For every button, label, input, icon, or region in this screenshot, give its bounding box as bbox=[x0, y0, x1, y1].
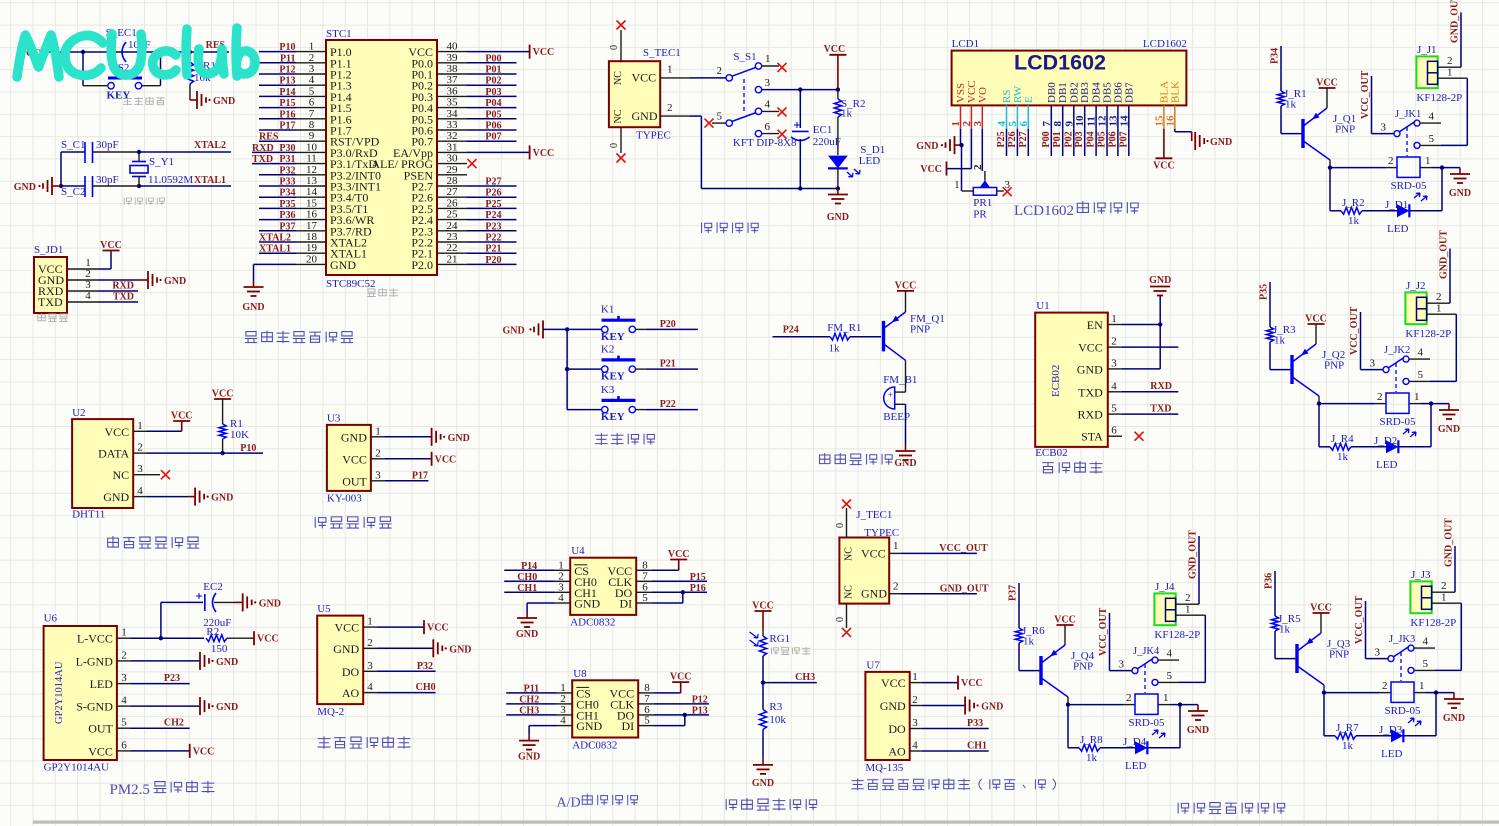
LED J_D4 bbox=[1123, 730, 1180, 772]
wire LED loop left rail bbox=[1319, 404, 1330, 447]
pin 6 DO of U8 bbox=[617, 704, 709, 723]
svg-text:NC: NC bbox=[844, 585, 855, 599]
sensor U2 DHT11 bbox=[72, 407, 133, 521]
svg-text:VCC: VCC bbox=[212, 389, 234, 400]
net label P33 (U7) bbox=[922, 718, 989, 729]
power port VCC (J_Q4) bbox=[1054, 615, 1076, 646]
pin 1 of J_J2 bbox=[1427, 303, 1457, 315]
svg-text:GND: GND bbox=[1210, 137, 1232, 148]
svg-text:VCC: VCC bbox=[1153, 161, 1175, 172]
svg-text:J_J4: J_J4 bbox=[1155, 581, 1175, 593]
ground (U5) bbox=[377, 639, 472, 657]
pin 20 GND of STC1 bbox=[254, 253, 357, 281]
pin 3 NC of U2 bbox=[113, 463, 147, 482]
svg-text:GND: GND bbox=[1438, 424, 1460, 435]
pin 4 GND of U4 bbox=[527, 592, 600, 612]
svg-text:3: 3 bbox=[367, 660, 373, 672]
svg-text:S_TEC1: S_TEC1 bbox=[643, 47, 681, 59]
pin 5 P1.4 of STC1 bbox=[259, 85, 352, 104]
svg-text:R2: R2 bbox=[206, 626, 219, 638]
resistor R2 150 bbox=[206, 626, 254, 655]
svg-text:P37: P37 bbox=[279, 221, 295, 232]
pin 5 OUT of U6 bbox=[88, 717, 131, 736]
power port VCC (R2) bbox=[254, 631, 279, 645]
svg-text:KEY: KEY bbox=[601, 411, 625, 423]
svg-text:VCC_OUT: VCC_OUT bbox=[1360, 70, 1371, 119]
svg-text:AO: AO bbox=[342, 686, 360, 700]
svg-text:FM_R1: FM_R1 bbox=[827, 322, 861, 334]
svg-text:13: 13 bbox=[306, 175, 318, 187]
svg-text:U1: U1 bbox=[1036, 300, 1049, 312]
svg-text:0: 0 bbox=[835, 523, 846, 528]
svg-text:CH3: CH3 bbox=[795, 672, 815, 683]
svg-text:GND: GND bbox=[213, 96, 235, 107]
svg-text:GND: GND bbox=[14, 182, 36, 193]
pin 5 RXD of U1 bbox=[1077, 403, 1178, 422]
svg-text:1k: 1k bbox=[1337, 451, 1349, 463]
svg-text:DB3: DB3 bbox=[1079, 82, 1091, 103]
wire P35 down bbox=[1269, 282, 1271, 327]
pin 8 VCC of U4 bbox=[608, 559, 679, 578]
svg-text:TYPEC: TYPEC bbox=[636, 130, 671, 142]
svg-text:3: 3 bbox=[1370, 358, 1376, 370]
svg-text:J_J1: J_J1 bbox=[1417, 44, 1437, 56]
net label P24 bbox=[783, 324, 799, 335]
svg-text:5: 5 bbox=[1167, 670, 1173, 682]
svg-text:25: 25 bbox=[447, 209, 459, 221]
net GND_OUT wire (J_J3) bbox=[1444, 518, 1456, 592]
svg-text:P16: P16 bbox=[279, 109, 295, 120]
svg-text:P27: P27 bbox=[1018, 131, 1029, 147]
svg-text:P26: P26 bbox=[1007, 131, 1018, 147]
svg-text:5: 5 bbox=[1423, 658, 1429, 670]
svg-text:11: 11 bbox=[306, 153, 317, 165]
ground (S_JD1) bbox=[148, 271, 186, 289]
svg-text:P20: P20 bbox=[660, 319, 676, 330]
svg-text:J_J3: J_J3 bbox=[1411, 569, 1431, 581]
connector J_J3 KF128-2P bbox=[1410, 569, 1456, 629]
wire base of J_Q1 bbox=[1281, 133, 1302, 135]
connector J_J4 KF128-2P bbox=[1154, 581, 1200, 641]
net label P20 bbox=[660, 319, 676, 330]
svg-text:5: 5 bbox=[1429, 133, 1435, 145]
svg-text:1: 1 bbox=[893, 540, 899, 552]
net VCC_OUT rail (J_JK3) bbox=[1354, 595, 1366, 658]
svg-text:P05: P05 bbox=[1097, 131, 1108, 147]
title AD conversion circuit bbox=[557, 794, 638, 811]
svg-text:P01: P01 bbox=[485, 65, 501, 76]
svg-text:2: 2 bbox=[717, 65, 723, 77]
svg-text:3: 3 bbox=[309, 63, 315, 75]
svg-text:KF128-2P: KF128-2P bbox=[1410, 617, 1456, 629]
node junction U1 pin1 bbox=[1158, 322, 1162, 369]
microcontroller U STC1 STC89C52 bbox=[326, 28, 437, 290]
svg-text:EC1: EC1 bbox=[813, 124, 833, 136]
svg-text:3: 3 bbox=[765, 77, 771, 89]
svg-text:GND: GND bbox=[1443, 713, 1465, 724]
svg-text:P00: P00 bbox=[1041, 131, 1052, 147]
svg-text:RXD: RXD bbox=[1077, 408, 1103, 422]
svg-text:GND: GND bbox=[1449, 188, 1471, 199]
svg-text:P24: P24 bbox=[485, 210, 501, 221]
push button K1 KEY bbox=[567, 304, 698, 343]
svg-text:LED: LED bbox=[859, 155, 880, 167]
svg-text:39: 39 bbox=[447, 52, 459, 64]
svg-text:1: 1 bbox=[1441, 592, 1447, 604]
ADC U8 ADC0832 bbox=[572, 668, 638, 752]
svg-text:P32: P32 bbox=[417, 661, 433, 672]
svg-text:VCC: VCC bbox=[193, 746, 215, 757]
gray text danpianji bbox=[367, 288, 398, 297]
LCD pin names BLA BLK bbox=[1158, 81, 1181, 103]
transistor J_Q2 PNP bbox=[1292, 344, 1345, 396]
net label P34 bbox=[1270, 48, 1281, 64]
svg-text:RES: RES bbox=[259, 132, 279, 143]
svg-text:VCC: VCC bbox=[632, 71, 657, 85]
svg-text:14: 14 bbox=[1118, 115, 1130, 127]
svg-text:S_C1: S_C1 bbox=[61, 139, 85, 151]
power port VCC (U8) bbox=[670, 672, 692, 693]
svg-text:J_D1: J_D1 bbox=[1385, 199, 1408, 211]
connector J_J2 KF128-2P bbox=[1405, 280, 1451, 340]
svg-text:NC: NC bbox=[113, 468, 130, 482]
net VCC_OUT rail (J_JK1) bbox=[1360, 70, 1372, 133]
svg-text:P23: P23 bbox=[164, 673, 180, 684]
svg-text:2: 2 bbox=[367, 637, 373, 649]
svg-text:P07: P07 bbox=[485, 132, 501, 143]
svg-text:20: 20 bbox=[306, 253, 318, 265]
svg-text:1: 1 bbox=[1436, 303, 1442, 315]
pin 6 DO of U4 bbox=[615, 581, 707, 600]
svg-text:4: 4 bbox=[85, 290, 91, 302]
svg-text:0: 0 bbox=[609, 45, 620, 50]
relay contacts J_JK1 bbox=[1372, 109, 1442, 156]
svg-text:GND: GND bbox=[518, 752, 540, 763]
pin 9 RST/VPD of STC1 bbox=[259, 130, 380, 149]
pin 0 top of S_TEC1 bbox=[609, 21, 626, 62]
no-connect X (S_S1 pin5) bbox=[705, 119, 714, 128]
net VCC_OUT rail (J_JK4) bbox=[1098, 607, 1110, 670]
gray text guangmindianzu bbox=[771, 647, 810, 655]
svg-text:GND: GND bbox=[752, 778, 774, 789]
svg-text:P14: P14 bbox=[521, 561, 537, 572]
svg-text:10k: 10k bbox=[769, 714, 786, 726]
svg-text:9: 9 bbox=[309, 130, 315, 142]
wire LED loop left rail bbox=[1324, 693, 1335, 736]
svg-text:RXD: RXD bbox=[1150, 381, 1172, 392]
svg-text:1: 1 bbox=[1111, 313, 1117, 325]
node junction reset-right bbox=[188, 50, 192, 54]
svg-text:2: 2 bbox=[1126, 692, 1132, 704]
ground (U7) bbox=[922, 697, 1003, 715]
svg-text:NC: NC bbox=[613, 71, 624, 85]
svg-text:0: 0 bbox=[835, 617, 846, 622]
pin 1 VCC of U2 bbox=[105, 420, 147, 439]
svg-text:E: E bbox=[1023, 96, 1035, 103]
svg-text:10: 10 bbox=[306, 141, 318, 153]
wire base of J_Q2 bbox=[1270, 369, 1291, 371]
svg-text:P23: P23 bbox=[485, 221, 501, 232]
svg-text:P37: P37 bbox=[1008, 585, 1019, 601]
svg-text:22: 22 bbox=[447, 242, 458, 254]
svg-text:TYPEC: TYPEC bbox=[864, 527, 899, 539]
svg-text:VCC: VCC bbox=[533, 47, 555, 58]
svg-text:TXD: TXD bbox=[38, 295, 63, 309]
wire LCD VCC bbox=[970, 129, 972, 169]
svg-text:OUT: OUT bbox=[88, 722, 113, 736]
wire LCD VSS to gnd bbox=[959, 129, 963, 191]
svg-text:1: 1 bbox=[1163, 692, 1169, 704]
pin 3 P1.2 of STC1 bbox=[259, 63, 352, 82]
pin 27 P2.6 of STC1 bbox=[411, 186, 516, 205]
resistor J_R2 1k bbox=[1341, 197, 1397, 227]
svg-text:5: 5 bbox=[309, 85, 315, 97]
LCD pins 4-6 bbox=[996, 105, 1030, 128]
pin 28 P2.7 of STC1 bbox=[411, 175, 516, 194]
pin 2 of J_J4 bbox=[1176, 592, 1199, 604]
svg-text:RXD: RXD bbox=[252, 143, 274, 154]
ground (U3) bbox=[385, 428, 470, 446]
ground (U6 L-GND) bbox=[131, 652, 238, 670]
svg-text:P12: P12 bbox=[692, 694, 708, 705]
svg-text:2: 2 bbox=[893, 581, 899, 593]
svg-text:GND: GND bbox=[1149, 275, 1171, 286]
svg-text:PNP: PNP bbox=[1073, 661, 1093, 673]
svg-text:GND: GND bbox=[333, 642, 359, 656]
svg-text:SRD-05: SRD-05 bbox=[1384, 705, 1421, 717]
ground (buttons) bbox=[502, 320, 543, 338]
pin 2 GND of S_TEC1 bbox=[660, 102, 838, 189]
svg-text:2: 2 bbox=[309, 52, 315, 64]
svg-text:VCC: VCC bbox=[88, 744, 113, 758]
svg-text:P25: P25 bbox=[996, 131, 1007, 147]
net label CH1 (U7) bbox=[922, 741, 989, 752]
svg-text:PR1: PR1 bbox=[973, 197, 992, 209]
svg-text:4: 4 bbox=[1418, 347, 1424, 359]
pin 30 ALE/ PROG of STC1 bbox=[371, 153, 467, 172]
svg-text:K3: K3 bbox=[601, 384, 615, 396]
svg-text:CH1: CH1 bbox=[967, 741, 987, 752]
net label P35 bbox=[1259, 284, 1270, 300]
air quality sensor U7 MQ-135 bbox=[865, 660, 909, 775]
svg-text:3: 3 bbox=[1375, 647, 1381, 659]
svg-text:DATA: DATA bbox=[98, 447, 129, 461]
svg-text:KFT DIP-8X8: KFT DIP-8X8 bbox=[733, 137, 797, 149]
LED J_D3 bbox=[1379, 718, 1436, 760]
push button S2 KEY bbox=[83, 52, 161, 102]
svg-text:6: 6 bbox=[765, 121, 771, 133]
crystal S_Y1 11.0592M bbox=[130, 150, 193, 188]
svg-text:ADC0832: ADC0832 bbox=[572, 739, 617, 751]
wire LED loop right rail bbox=[1430, 404, 1432, 447]
svg-text:S_S1: S_S1 bbox=[733, 51, 756, 63]
pin 2 GND_OUT of J_TEC1 bbox=[889, 581, 989, 595]
resistor J_R3 1k bbox=[1266, 324, 1296, 370]
svg-text:VCC_OUT: VCC_OUT bbox=[1098, 607, 1109, 656]
svg-text:3: 3 bbox=[912, 717, 918, 729]
pin 18 XTAL2 of STC1 bbox=[259, 231, 367, 250]
svg-text:A/D: A/D bbox=[557, 796, 581, 811]
svg-text:L-GND: L-GND bbox=[76, 654, 114, 668]
wire coil row J_JK1 bbox=[1330, 155, 1444, 170]
svg-text:VCC: VCC bbox=[533, 148, 555, 159]
pin 2 of J_J3 bbox=[1432, 580, 1455, 592]
svg-text:2: 2 bbox=[1441, 580, 1447, 592]
svg-text:10K: 10K bbox=[230, 429, 249, 441]
svg-text:VCC: VCC bbox=[752, 601, 774, 612]
pin 4 S-GND of U6 bbox=[76, 695, 131, 714]
pin 37 P0.2 of STC1 bbox=[411, 74, 516, 93]
svg-text:4: 4 bbox=[560, 715, 566, 727]
svg-text:P21: P21 bbox=[485, 244, 501, 255]
wire collector of J_Q2 bbox=[1317, 396, 1321, 406]
svg-text:GND: GND bbox=[341, 430, 367, 444]
svg-text:PR: PR bbox=[973, 209, 987, 221]
svg-text:P06: P06 bbox=[1107, 131, 1118, 147]
svg-text:LED: LED bbox=[1125, 760, 1146, 772]
svg-text:2: 2 bbox=[667, 102, 673, 114]
svg-text:P11: P11 bbox=[280, 53, 296, 64]
LCD pins 7-14 bbox=[1041, 105, 1131, 128]
svg-text:2: 2 bbox=[1111, 336, 1117, 348]
svg-text:TXD: TXD bbox=[252, 154, 273, 165]
svg-text:P36: P36 bbox=[279, 210, 295, 221]
svg-text:GND: GND bbox=[981, 702, 1003, 713]
photoresistor RG1 bbox=[750, 630, 791, 683]
svg-text:1: 1 bbox=[367, 616, 373, 628]
svg-text:RXD: RXD bbox=[112, 281, 134, 292]
svg-text:16: 16 bbox=[306, 209, 318, 221]
wire L-VCC node bbox=[131, 602, 204, 640]
svg-text:GP2Y1014AU: GP2Y1014AU bbox=[54, 661, 65, 724]
pin 2 DATA of U2 bbox=[98, 442, 147, 461]
svg-text:7: 7 bbox=[1041, 121, 1053, 127]
svg-text:4: 4 bbox=[367, 681, 373, 693]
svg-text:CH0: CH0 bbox=[416, 682, 436, 693]
svg-text:P10: P10 bbox=[279, 42, 295, 53]
svg-text:34: 34 bbox=[447, 108, 459, 120]
svg-text:30: 30 bbox=[447, 153, 459, 165]
pin 1 VCC of U5 bbox=[335, 616, 377, 635]
svg-text:1: 1 bbox=[121, 627, 127, 639]
ground (LCD BLK) bbox=[1192, 132, 1233, 152]
svg-text:33: 33 bbox=[447, 119, 459, 131]
svg-text:LED: LED bbox=[1376, 459, 1397, 471]
svg-text:VCC: VCC bbox=[1305, 314, 1327, 325]
pin 6 P1.5 of STC1 bbox=[259, 97, 352, 116]
pin 7 CLK of U4 bbox=[608, 570, 707, 589]
pin 10 P3.0/RxD of STC1 bbox=[252, 141, 378, 160]
pin 7 CLK of U8 bbox=[610, 693, 709, 712]
svg-text:6: 6 bbox=[121, 739, 127, 751]
svg-text:LED: LED bbox=[90, 677, 114, 691]
pin 1 CS of U4 bbox=[504, 559, 589, 578]
svg-text:23: 23 bbox=[447, 231, 459, 243]
ground (buzzer) bbox=[894, 445, 916, 469]
relay contacts J_JK3 bbox=[1366, 634, 1436, 681]
pin 6 VCC of U6 bbox=[88, 739, 131, 758]
svg-text:OUT: OUT bbox=[342, 474, 367, 488]
pin 1 EN of U1 bbox=[1087, 313, 1160, 332]
pin 2 L-GND of U6 bbox=[76, 649, 131, 668]
pin 2 of J_J1 bbox=[1438, 55, 1461, 67]
svg-text:GND: GND bbox=[211, 493, 233, 504]
svg-text:J_R4: J_R4 bbox=[1331, 433, 1354, 445]
pin 1 VCC of S_TEC1 bbox=[660, 64, 726, 78]
gray text anjianfuwei bbox=[123, 97, 165, 106]
svg-text:U6: U6 bbox=[44, 613, 58, 625]
svg-text:1: 1 bbox=[1447, 67, 1453, 79]
pin 3 DO of U5 bbox=[342, 660, 377, 679]
power port VCC (power circuit) bbox=[824, 44, 847, 88]
svg-text:PNP: PNP bbox=[1324, 360, 1344, 372]
pin 0 bottom of S_TEC1 bbox=[609, 127, 626, 162]
svg-text:12: 12 bbox=[306, 164, 317, 176]
svg-text:VCC: VCC bbox=[335, 621, 360, 635]
ground (J_JK2 coil) bbox=[1431, 404, 1460, 435]
pin 33 P0.6 of STC1 bbox=[411, 119, 516, 138]
svg-text:8: 8 bbox=[309, 119, 315, 131]
svg-text:+: + bbox=[888, 390, 893, 400]
svg-text:4: 4 bbox=[558, 592, 564, 604]
svg-text:GND: GND bbox=[1077, 362, 1103, 376]
capacitor EC2 220uF bbox=[196, 581, 235, 629]
pin 16 P3.6/WR of STC1 bbox=[259, 209, 374, 228]
svg-text:1k: 1k bbox=[1086, 752, 1098, 764]
svg-text:3: 3 bbox=[137, 463, 143, 475]
svg-text:PNP: PNP bbox=[1335, 124, 1355, 136]
net label CH0 (U5) bbox=[377, 682, 436, 693]
pin 1 of J_J3 bbox=[1432, 592, 1462, 604]
pin 4 GND of U2 bbox=[103, 485, 147, 504]
svg-text:1: 1 bbox=[375, 425, 381, 437]
svg-text:ECB02: ECB02 bbox=[1050, 365, 1062, 397]
svg-text:35: 35 bbox=[447, 97, 459, 109]
title button circuit bbox=[595, 433, 654, 445]
pin 6 STA of U1 bbox=[1081, 425, 1122, 444]
ground (reset) bbox=[190, 91, 235, 109]
ground (light) bbox=[752, 759, 774, 789]
svg-text:2: 2 bbox=[972, 164, 984, 170]
relay coil SRD-05 (J_JK2) bbox=[1379, 393, 1416, 428]
svg-text:VCC: VCC bbox=[824, 44, 846, 55]
svg-text:P30: P30 bbox=[279, 143, 295, 154]
svg-text:6: 6 bbox=[1018, 121, 1030, 127]
connector S_JD1 download port bbox=[34, 244, 67, 313]
wire LED loop left rail bbox=[1068, 705, 1079, 748]
svg-text:CH1: CH1 bbox=[517, 583, 537, 594]
svg-text:1k: 1k bbox=[1342, 740, 1354, 752]
svg-text:KY-003: KY-003 bbox=[327, 493, 362, 505]
wire LED loop right rail bbox=[1435, 693, 1437, 736]
svg-text:10: 10 bbox=[1074, 115, 1086, 127]
wire LED loop left rail bbox=[1330, 168, 1341, 211]
svg-text:3: 3 bbox=[1111, 357, 1117, 369]
svg-text:2: 2 bbox=[1377, 391, 1383, 403]
svg-text:VCC: VCC bbox=[105, 425, 130, 439]
pin 3 RXD of S_JD1 bbox=[67, 279, 138, 292]
svg-text:GND_OUT: GND_OUT bbox=[1188, 530, 1199, 579]
svg-text:STC1: STC1 bbox=[326, 28, 352, 40]
svg-text:3: 3 bbox=[375, 469, 381, 481]
wire collector to buzzer bbox=[905, 360, 907, 392]
wire P34 down bbox=[1280, 46, 1282, 91]
svg-text:2: 2 bbox=[375, 447, 381, 459]
pin 1 VCC of S_JD1 bbox=[67, 253, 111, 269]
svg-text:LED: LED bbox=[1381, 748, 1402, 760]
PM2.5 sensor U6 GP2Y1014AU bbox=[44, 613, 117, 774]
svg-text:P33: P33 bbox=[279, 177, 295, 188]
